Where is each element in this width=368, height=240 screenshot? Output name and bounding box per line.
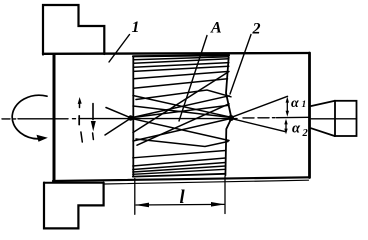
upper angle line (alpha1) bbox=[232, 96, 288, 117]
svg-text:1: 1 bbox=[132, 19, 140, 36]
svg-text:2: 2 bbox=[302, 128, 309, 139]
tailstock body rectangle bbox=[335, 101, 357, 136]
dimension arrowhead right bbox=[211, 202, 225, 207]
housing bottom double line bbox=[104, 180, 309, 184]
winding hatch bottom group bbox=[133, 151, 226, 175]
tailstock axis line bbox=[311, 118, 356, 120]
winding cross pattern (middle X) bbox=[131, 72, 232, 147]
alpha1 angle arrow bbox=[286, 100, 288, 114]
right apex node bbox=[228, 115, 234, 121]
housing face (left vertical, thick) bbox=[53, 55, 56, 182]
svg-text:α: α bbox=[291, 96, 299, 111]
housing top line bbox=[43, 52, 310, 55]
up arrow lower tick bbox=[81, 132, 82, 142]
workpiece bottom edge bbox=[133, 174, 226, 177]
housing right wall bbox=[308, 53, 311, 178]
dimension line l bbox=[136, 203, 224, 206]
oscillation down arrow bbox=[92, 104, 94, 120]
left stub lower bbox=[105, 118, 131, 135]
left apex node bbox=[128, 115, 133, 120]
dimension extension line right bbox=[224, 177, 226, 214]
svg-text:1: 1 bbox=[302, 100, 307, 110]
rotation arrowhead bbox=[37, 135, 48, 142]
leader line A bbox=[179, 36, 207, 122]
chuck jaw bottom (stepped block) bbox=[44, 183, 104, 229]
workpiece right edge bbox=[225, 57, 231, 176]
chuck bottom top edge line bbox=[44, 182, 104, 184]
leader line 2 bbox=[230, 35, 251, 95]
tailstock cone upper slant bbox=[311, 101, 335, 106]
svg-text:l: l bbox=[180, 188, 186, 208]
svg-text:A: A bbox=[210, 20, 222, 37]
up arrow tick on axis bbox=[78, 116, 80, 125]
dimension extension line left bbox=[134, 179, 136, 215]
leader line 1 bbox=[109, 35, 130, 63]
chuck jaw top (stepped block) bbox=[43, 5, 104, 55]
winding hatch top group bbox=[134, 57, 229, 89]
left stub upper bbox=[106, 108, 131, 118]
svg-text:α: α bbox=[292, 121, 301, 137]
housing bottom line bbox=[53, 177, 310, 181]
dimension arrowhead left bbox=[135, 203, 149, 208]
rotation arc arrow (spindle rotation) bbox=[12, 95, 47, 139]
lower angle line (alpha2) bbox=[232, 119, 287, 132]
down arrow lower tick bbox=[92, 133, 95, 140]
workpiece left edge bbox=[132, 57, 134, 177]
oscillation up arrow bbox=[79, 101, 81, 108]
center axis (dash-dot) bbox=[2, 117, 309, 119]
tailstock cone lower slant bbox=[311, 128, 335, 136]
workpiece top edge bbox=[133, 55, 229, 56]
alpha2 angle arrow bbox=[285, 122, 287, 129]
svg-text:2: 2 bbox=[252, 21, 261, 38]
